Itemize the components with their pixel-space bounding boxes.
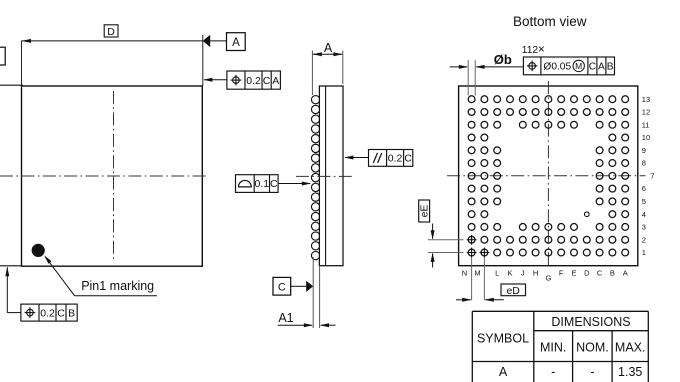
svg-text:G: G bbox=[545, 274, 551, 283]
svg-text:D: D bbox=[584, 269, 590, 278]
svg-text:0.2: 0.2 bbox=[246, 75, 261, 87]
svg-text:112×: 112× bbox=[522, 44, 545, 56]
svg-text:SYMBOL: SYMBOL bbox=[477, 332, 529, 346]
svg-text:L: L bbox=[495, 269, 499, 278]
svg-text:10: 10 bbox=[642, 133, 650, 142]
svg-text:9: 9 bbox=[642, 146, 646, 155]
svg-text:1: 1 bbox=[642, 248, 646, 257]
svg-text:K: K bbox=[507, 269, 512, 278]
svg-text:4: 4 bbox=[642, 210, 646, 219]
svg-text:C: C bbox=[597, 269, 603, 278]
svg-text:M: M bbox=[474, 269, 480, 278]
svg-text:12: 12 bbox=[642, 108, 650, 117]
svg-text:eE: eE bbox=[419, 205, 431, 218]
svg-text:NOM.: NOM. bbox=[576, 340, 609, 354]
svg-text:A: A bbox=[598, 61, 605, 72]
svg-text:M: M bbox=[575, 61, 582, 71]
svg-text:7: 7 bbox=[650, 171, 654, 180]
svg-text:Bottom view: Bottom view bbox=[513, 14, 587, 29]
svg-text:B: B bbox=[68, 307, 75, 319]
svg-text:B: B bbox=[610, 269, 615, 278]
svg-text:MAX.: MAX. bbox=[615, 340, 646, 354]
svg-text:J: J bbox=[521, 269, 525, 278]
svg-text:B: B bbox=[607, 61, 614, 72]
svg-text:2: 2 bbox=[642, 235, 646, 244]
svg-text:MIN.: MIN. bbox=[540, 340, 566, 354]
svg-text:1.35: 1.35 bbox=[618, 365, 642, 379]
svg-text:13: 13 bbox=[642, 95, 650, 104]
svg-text:3: 3 bbox=[642, 223, 646, 232]
svg-text:DIMENSIONS: DIMENSIONS bbox=[551, 315, 630, 329]
svg-text:C: C bbox=[57, 307, 65, 319]
svg-text:C: C bbox=[263, 75, 271, 87]
svg-text:6: 6 bbox=[642, 184, 646, 193]
svg-text:A1: A1 bbox=[278, 311, 293, 325]
svg-text:A: A bbox=[232, 37, 240, 49]
svg-text:A: A bbox=[272, 75, 279, 87]
svg-text:A: A bbox=[499, 365, 508, 379]
svg-text:Øb: Øb bbox=[494, 52, 512, 67]
svg-text:C: C bbox=[589, 61, 596, 72]
svg-text:5: 5 bbox=[642, 197, 646, 206]
svg-text:eD: eD bbox=[506, 285, 520, 297]
svg-text:C: C bbox=[278, 281, 286, 293]
svg-text:H: H bbox=[533, 269, 538, 278]
svg-text:Pin1 marking: Pin1 marking bbox=[81, 279, 154, 293]
svg-text:8: 8 bbox=[642, 159, 646, 168]
svg-text:11: 11 bbox=[642, 120, 650, 129]
svg-text:-: - bbox=[590, 365, 594, 379]
svg-text:C: C bbox=[404, 153, 412, 165]
svg-text:E: E bbox=[571, 269, 576, 278]
svg-text:0.1: 0.1 bbox=[255, 178, 270, 190]
svg-text:0.2: 0.2 bbox=[388, 153, 403, 165]
svg-text:D: D bbox=[107, 26, 115, 38]
svg-text:Ø0.05: Ø0.05 bbox=[543, 61, 571, 72]
svg-text:0.2: 0.2 bbox=[40, 307, 55, 319]
svg-text:C: C bbox=[270, 178, 278, 190]
svg-text:A: A bbox=[324, 41, 333, 55]
svg-text:A: A bbox=[623, 269, 628, 278]
svg-text:-: - bbox=[551, 365, 555, 379]
svg-text:F: F bbox=[559, 269, 564, 278]
svg-text:N: N bbox=[462, 269, 467, 278]
